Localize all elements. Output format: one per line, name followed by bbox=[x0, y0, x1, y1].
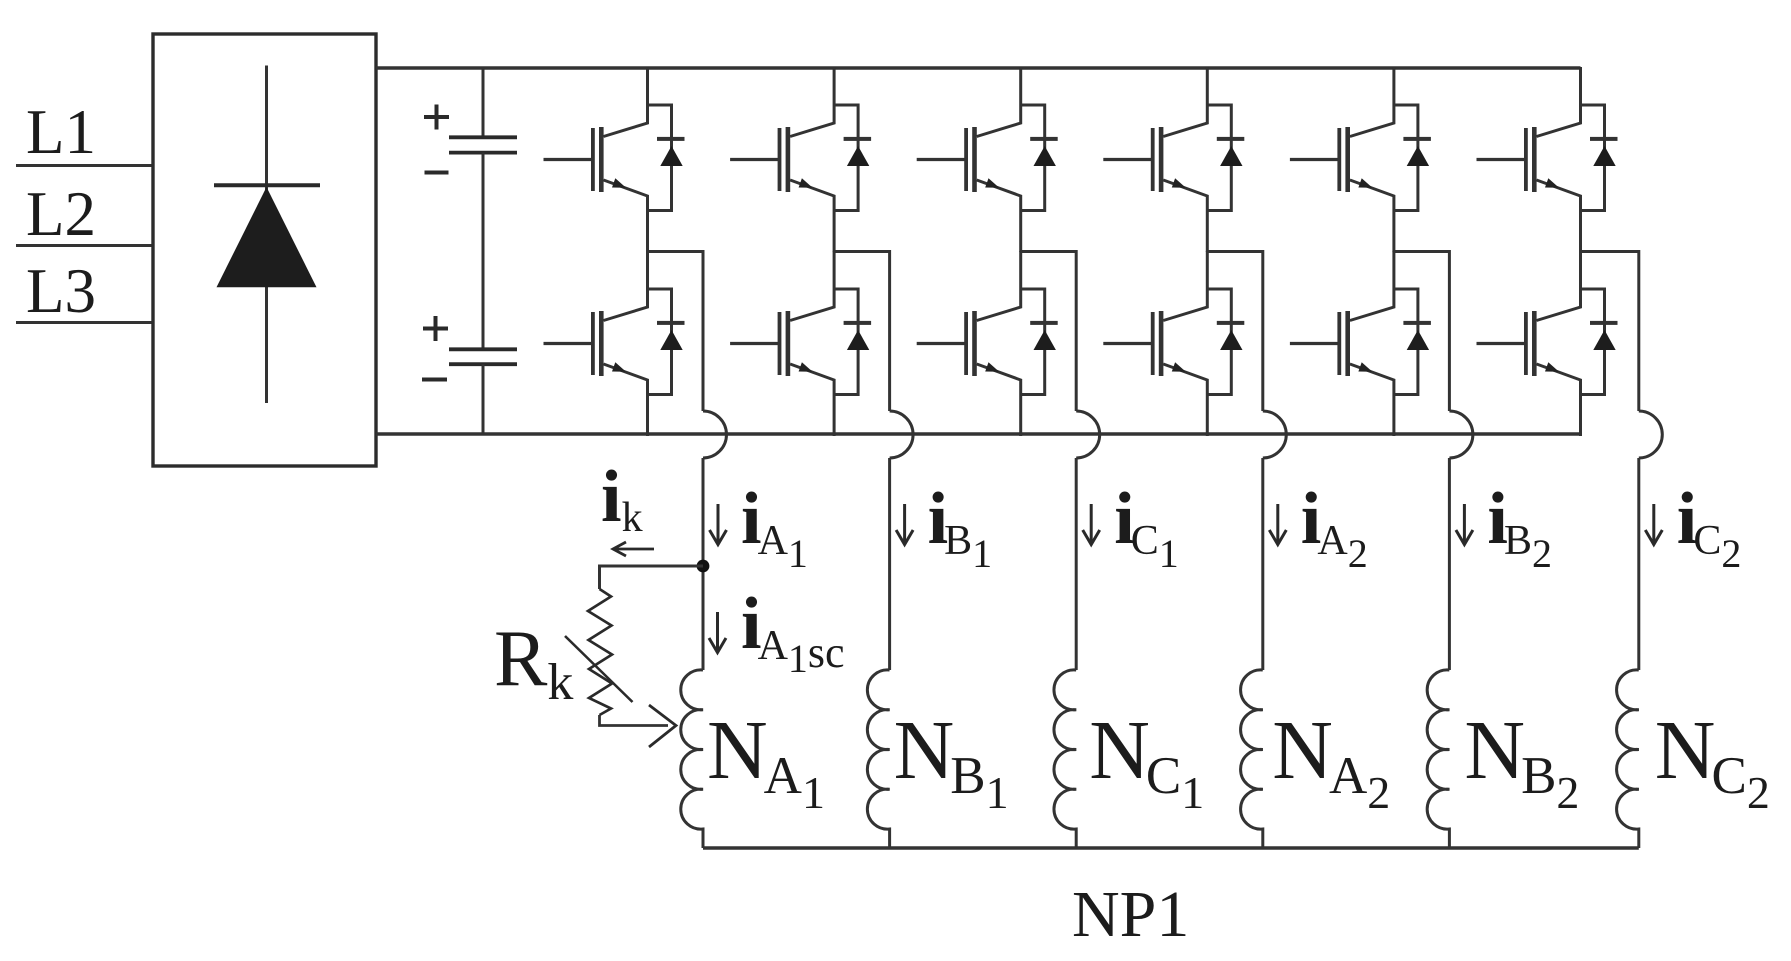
label current arrow iB2 bbox=[1456, 504, 1473, 545]
arrow pointing into winding NA1 tap bbox=[649, 705, 676, 747]
svg-text:L2: L2 bbox=[26, 179, 96, 249]
label current arrow iA1sc bbox=[709, 612, 726, 653]
wire phase C1 hop over bottom bus bbox=[1076, 411, 1099, 458]
wire phase A1 midpoint tap bbox=[648, 252, 704, 412]
svg-text:L3: L3 bbox=[26, 256, 96, 326]
inductor winding NA1 bbox=[681, 670, 703, 848]
wire L1 input line bbox=[16, 164, 154, 167]
wire short-circuit branch horizontal bbox=[600, 566, 704, 589]
wire capacitor branch lower segment bbox=[482, 364, 485, 434]
wire phase C1 drop to winding bbox=[1075, 458, 1078, 670]
capacitor C2 plates bbox=[449, 349, 517, 364]
capacitor C1 plates bbox=[449, 137, 517, 152]
wire bottom DC bus bbox=[376, 432, 1581, 435]
wire phase B2 drop to winding bbox=[1448, 458, 1451, 670]
IGBT T6 (lower switch leg C1) with freewheeling diode bbox=[917, 251, 1058, 436]
diode D1 cathode bar bbox=[214, 183, 320, 187]
IGBT T4 (lower switch leg B1) with freewheeling diode bbox=[730, 251, 871, 436]
IGBT T1 (upper switch leg A1) with freewheeling diode bbox=[544, 67, 685, 252]
wire phase C1 midpoint tap bbox=[1021, 252, 1076, 412]
label current arrow iB1 bbox=[896, 504, 913, 545]
label C1 minus sign bbox=[425, 171, 449, 175]
label current arrow iA2 bbox=[1269, 504, 1286, 545]
wire capacitor branch upper segment bbox=[482, 68, 485, 137]
wire short-circuit branch bottom bbox=[600, 715, 669, 726]
inductor winding NB2 bbox=[1427, 670, 1449, 848]
IGBT T10 (lower switch leg B2) with freewheeling diode bbox=[1290, 251, 1431, 436]
wire phase C2 hop over bottom bus bbox=[1639, 411, 1662, 458]
resistor Rk zigzag bbox=[588, 589, 612, 715]
IGBT T12 (lower switch leg C2) with freewheeling diode bbox=[1477, 251, 1618, 436]
label C2 minus sign bbox=[422, 378, 447, 382]
wire phase B2 midpoint tap bbox=[1394, 252, 1450, 412]
wire phase B1 drop to winding bbox=[888, 458, 891, 670]
IGBT T2 (lower switch leg A1) with freewheeling diode bbox=[544, 251, 685, 436]
node short-circuit tap junction on phase A1 bbox=[697, 560, 710, 573]
label C1 plus sign bbox=[424, 105, 449, 130]
wire L3 input line bbox=[16, 321, 154, 324]
wire phase A1 drop to winding bbox=[702, 458, 705, 670]
wire phase A2 drop to winding bbox=[1261, 458, 1264, 670]
wire phase C2 midpoint tap bbox=[1581, 252, 1639, 412]
resistor Rk variable-arrow diagonal bbox=[565, 636, 633, 702]
wire phase A2 hop over bottom bus bbox=[1263, 411, 1286, 458]
wire phase B1 midpoint tap bbox=[834, 252, 890, 412]
svg-text:NP1: NP1 bbox=[1072, 878, 1189, 951]
svg-text:L1: L1 bbox=[26, 97, 96, 167]
IGBT T11 (upper switch leg C2) with freewheeling diode bbox=[1477, 67, 1618, 252]
IGBT T5 (upper switch leg C1) with freewheeling diode bbox=[917, 67, 1058, 252]
inductor winding NA2 bbox=[1241, 670, 1263, 848]
wire phase B1 hop over bottom bus bbox=[890, 411, 913, 458]
IGBT T8 (lower switch leg A2) with freewheeling diode bbox=[1103, 251, 1244, 436]
IGBT T3 (upper switch leg B1) with freewheeling diode bbox=[730, 67, 871, 252]
wire capacitor branch middle segment bbox=[482, 153, 485, 350]
inductor winding NC2 bbox=[1617, 670, 1639, 848]
wire phase A2 midpoint tap bbox=[1207, 252, 1263, 412]
inductor winding NC1 bbox=[1054, 670, 1076, 848]
label current arrow iA1 bbox=[710, 504, 727, 545]
wire top DC bus bbox=[376, 66, 1581, 69]
diode D1 (rectifier symbol) vertical lead bbox=[265, 66, 268, 404]
wire NP1 star-point bus bbox=[703, 846, 1639, 849]
label current arrow iC2 bbox=[1645, 504, 1662, 545]
inductor winding NB1 bbox=[867, 670, 889, 848]
wire phase B2 hop over bottom bus bbox=[1449, 411, 1472, 458]
wire L2 input line bbox=[16, 244, 154, 247]
arrow ik direction (left) bbox=[613, 542, 654, 556]
diode D1 triangle bbox=[217, 187, 317, 287]
wire phase C2 drop to winding bbox=[1637, 458, 1640, 670]
IGBT T9 (upper switch leg B2) with freewheeling diode bbox=[1290, 67, 1431, 252]
label C2 plus sign bbox=[423, 316, 448, 341]
IGBT T7 (upper switch leg A2) with freewheeling diode bbox=[1103, 67, 1244, 252]
wire phase A1 hop over bottom bus bbox=[703, 411, 726, 458]
rectifier block outline bbox=[153, 34, 376, 466]
label current arrow iC1 bbox=[1083, 504, 1100, 545]
